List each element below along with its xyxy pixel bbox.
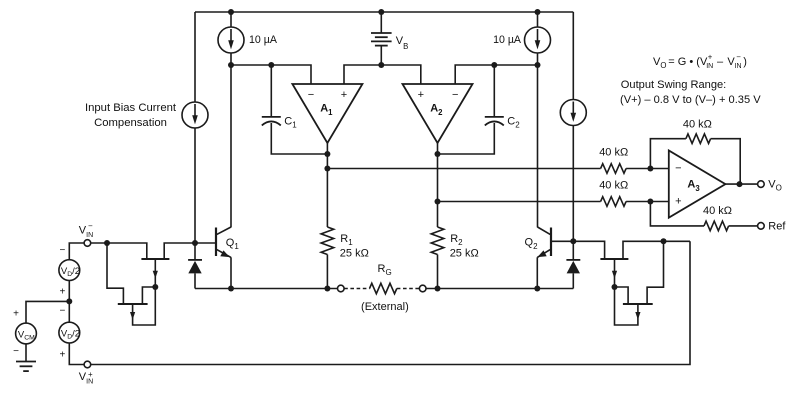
wire R2 to gain node <box>437 255 439 289</box>
arrow Q2 emitter <box>537 250 546 257</box>
wire feedback left riser <box>650 139 686 169</box>
node Q2 base junction <box>570 238 576 244</box>
node Q2 emitter junction <box>534 286 540 292</box>
label R7 value 40k <box>683 119 712 131</box>
wire J2 drain <box>142 287 155 304</box>
svg-text:−: − <box>88 221 93 230</box>
diode D1 lead <box>194 243 196 260</box>
wire Q1 collector feed <box>230 65 232 227</box>
wire top supply rail <box>195 11 573 13</box>
wire J1 source <box>154 259 156 287</box>
resistor R8 40k ref <box>704 221 729 231</box>
jfet J1 channel bar <box>141 258 169 260</box>
label R1 value <box>340 247 369 259</box>
svg-text:−: − <box>59 245 65 256</box>
arrow Q1 emitter <box>220 250 229 257</box>
svg-text:+: + <box>341 89 347 101</box>
label A3 minus input <box>675 162 681 174</box>
wire R1 to gain node <box>326 255 328 289</box>
svg-text:25 kΩ: 25 kΩ <box>340 247 369 259</box>
label A_2 <box>430 103 443 117</box>
svg-text:VB: VB <box>396 35 409 51</box>
svg-text:IN: IN <box>735 63 742 70</box>
label Input Bias Current Compensation <box>85 102 177 129</box>
node I3 output junction <box>535 62 541 68</box>
node V_IN- branch junction <box>104 240 110 246</box>
label R_G <box>378 263 392 277</box>
wire V_IN- to J2 gate <box>107 243 123 304</box>
transistor Q1 base bar <box>215 228 217 257</box>
svg-text:= G • (V: = G • (V <box>668 56 708 68</box>
arrow J2 source <box>130 312 135 320</box>
svg-text:Output Swing Range:: Output Swing Range: <box>621 79 726 91</box>
wire V_IN+ bottom rail <box>91 241 690 364</box>
terminal RG left <box>338 285 345 292</box>
wire J2 source loop <box>133 287 156 325</box>
jfet J3 channel bar <box>600 258 628 260</box>
svg-text:40 kΩ: 40 kΩ <box>599 179 628 191</box>
label output equation <box>653 52 747 70</box>
label V_O <box>768 179 782 193</box>
wire gain rail right <box>426 288 573 290</box>
wire compensation branch drop <box>194 12 196 102</box>
svg-text:25 kΩ: 25 kΩ <box>450 247 479 259</box>
node top-left junction <box>228 9 234 15</box>
capacitor C1 <box>262 117 281 126</box>
label R2 value <box>450 247 479 259</box>
wire Q2 collector <box>538 227 551 234</box>
wire rail65 mid segment A1+ to A2+ <box>344 65 421 84</box>
node R1 bottom junction <box>324 286 330 292</box>
label C_2 <box>507 115 520 129</box>
wire J4 drain <box>615 287 629 304</box>
svg-text:+: + <box>418 89 424 101</box>
resistor R5 40k <box>601 164 626 174</box>
svg-text:(External): (External) <box>361 301 409 313</box>
wire I4 to Q2 base node <box>572 126 574 242</box>
label output swing range line1 <box>621 79 726 91</box>
jfet J4 channel bar <box>623 303 653 305</box>
node top V_B junction <box>378 9 384 15</box>
svg-text:+: + <box>59 287 65 298</box>
wire C2 top lead <box>493 65 495 116</box>
op-amp A3 triangle <box>669 151 726 218</box>
source VD/2 upper <box>59 260 80 281</box>
svg-text:−: − <box>452 89 458 101</box>
svg-text:Input Bias Current: Input Bias Current <box>85 102 177 114</box>
source VD/2 lower <box>59 322 80 343</box>
diode D1 <box>188 260 202 289</box>
svg-text:10 µA: 10 µA <box>493 34 522 46</box>
label A1 minus input <box>308 89 314 101</box>
label minus lower VD/2 <box>59 305 65 316</box>
svg-text:A2: A2 <box>430 103 443 117</box>
node A2 output rail2 junction <box>435 199 441 205</box>
label output swing range line2 <box>620 94 761 106</box>
svg-text:(V+) – 0.8 V to (V–) + 0.35 V: (V+) – 0.8 V to (V–) + 0.35 V <box>620 94 761 106</box>
label plus V_CM <box>13 309 19 320</box>
node A2 output / C2 junction <box>435 151 441 157</box>
wire rail1 A1 output to R5 <box>327 168 600 170</box>
svg-text:40 kΩ: 40 kΩ <box>599 146 628 158</box>
svg-text:RG: RG <box>378 263 392 277</box>
terminal Ref <box>758 223 765 230</box>
label A2 plus input <box>418 89 424 101</box>
svg-text:Ref: Ref <box>768 220 786 232</box>
svg-text:O: O <box>660 61 666 70</box>
resistor RG external <box>370 283 397 293</box>
svg-text:–: – <box>717 56 724 68</box>
node A3 non-inverting input junction <box>647 199 653 205</box>
arrow J1 source <box>153 271 158 279</box>
svg-text:−: − <box>675 162 681 174</box>
svg-text:VO: VO <box>768 179 782 193</box>
svg-text:IN: IN <box>706 63 713 70</box>
resistor R7 40k feedback <box>686 134 711 144</box>
diode D2 lead <box>572 241 574 260</box>
label R5 value 40k <box>599 146 628 158</box>
label A1 plus input <box>341 89 347 101</box>
svg-text:+: + <box>675 196 681 208</box>
svg-text:Q1: Q1 <box>226 237 240 251</box>
resistor R6 40k <box>601 197 626 207</box>
label minus V_CM <box>13 346 19 357</box>
label R_2 <box>450 233 463 247</box>
label V_IN- <box>79 221 93 239</box>
svg-text:C2: C2 <box>507 115 520 129</box>
terminal V_O <box>758 181 765 188</box>
label plus upper VD/2 <box>59 287 65 298</box>
svg-text:10 µA: 10 µA <box>249 34 278 46</box>
node top-right junction <box>535 9 541 15</box>
wire RG dashed right <box>397 288 420 290</box>
resistor R1 25k <box>321 227 334 254</box>
svg-text:Compensation: Compensation <box>94 117 167 129</box>
wire Q2 emitter <box>537 250 550 258</box>
wire A3 output <box>725 183 757 185</box>
label R_1 <box>340 233 353 247</box>
label minus upper VD/2 <box>59 245 65 256</box>
label Q_1 <box>226 237 240 251</box>
svg-text:+: + <box>88 370 93 379</box>
wire J3 gate to V_IN+ rail <box>623 241 690 259</box>
transistor Q2 base bar <box>550 228 552 257</box>
label R8 value 40k <box>703 205 732 217</box>
wire top rail to I2 <box>230 12 232 27</box>
svg-text:A3: A3 <box>687 179 700 193</box>
label A3 plus input <box>675 196 681 208</box>
node R2 bottom junction <box>435 286 441 292</box>
wire right rail drop <box>572 12 574 100</box>
terminal V_IN- <box>84 240 91 247</box>
wire Q2 collector feed <box>537 65 539 227</box>
label A_1 <box>320 103 333 117</box>
wire Q1 emitter <box>217 250 231 258</box>
svg-text:+: + <box>13 309 19 320</box>
arrow J4 source <box>635 312 640 320</box>
wire C1 top lead <box>270 65 272 116</box>
node A1 output / C1 junction <box>324 151 330 157</box>
wire top rail to battery <box>380 12 382 33</box>
label A2 minus input <box>452 89 458 101</box>
node C1 top junction <box>268 62 274 68</box>
label 10 uA right <box>493 34 522 46</box>
node A3 inverting input junction <box>647 166 653 172</box>
wire feedback to output node <box>711 139 741 184</box>
label 10 uA left <box>249 34 278 46</box>
svg-text:C1: C1 <box>284 115 297 129</box>
wire A1 output to R1 <box>326 143 328 227</box>
op-amp A1 triangle <box>292 84 362 143</box>
label V_B <box>396 35 409 51</box>
wire Q1 emitter drop <box>230 257 232 288</box>
wire J3 source <box>614 259 616 287</box>
label R6 value 40k <box>599 179 628 191</box>
wire V_IN- to JFET J1 gate <box>91 243 147 259</box>
wire rail2 A2 output to R6 <box>438 201 601 203</box>
wire A3 plus node to R8 <box>650 202 704 226</box>
node V_CM junction <box>66 298 72 304</box>
wire rail65 right segment A2- to I3 <box>455 65 537 84</box>
terminal RG right <box>419 285 426 292</box>
op-amp A2 triangle <box>403 84 473 143</box>
wire I3 to y65 rail <box>537 53 539 65</box>
node Q1 base junction <box>192 240 198 246</box>
wire rail65 left segment to A1 inverting input <box>231 65 311 84</box>
node J1 source junction <box>152 284 158 290</box>
wire gain rail left <box>195 288 337 290</box>
wire compensation source to base node <box>194 128 196 243</box>
label plus lower VD/2 <box>59 350 65 361</box>
wire R5 to A3 inverting node <box>626 168 669 170</box>
capacitor C2 <box>485 117 504 126</box>
wire V_CM branch <box>26 301 69 323</box>
node A3 output junction <box>737 181 743 187</box>
wire C2 bottom lead to A2 output <box>438 123 495 154</box>
wire C1 bottom lead to A1 output <box>271 123 327 154</box>
svg-text:−: − <box>308 89 314 101</box>
node I2 output junction <box>228 62 234 68</box>
wire V_IN- to VD/2 upper <box>69 243 84 260</box>
wire V_CM to ground <box>25 344 27 362</box>
svg-text:−: − <box>13 346 19 357</box>
svg-text:+: + <box>708 52 713 61</box>
svg-text:R1: R1 <box>340 233 353 247</box>
wire Q2 emitter drop <box>536 257 538 288</box>
svg-text:R2: R2 <box>450 233 463 247</box>
resistor R2 25k <box>431 227 444 254</box>
wire R8 to Ref terminal <box>729 225 758 227</box>
node J3 source junction <box>612 284 618 290</box>
wire Q1 collector <box>217 227 231 234</box>
label A_3 <box>687 179 700 193</box>
wire V_IN+ to J4 gate <box>647 241 663 304</box>
current source I1 (input bias current compensation) <box>182 102 208 128</box>
label Ref <box>768 220 786 232</box>
svg-text:+: + <box>59 350 65 361</box>
wire Q2 base to J3 drain <box>573 241 604 259</box>
node Q1 emitter junction <box>228 286 234 292</box>
wire Q2 base <box>551 240 573 242</box>
label V_IN+ <box>79 370 93 385</box>
node C2 top junction <box>491 62 497 68</box>
battery V_B <box>371 33 392 65</box>
source V_CM <box>16 323 37 344</box>
wire top rail to I3 <box>537 12 539 27</box>
terminal V_IN+ <box>84 361 91 368</box>
svg-text:40 kΩ: 40 kΩ <box>683 119 712 131</box>
wire J1 drain to Q1 base <box>164 243 216 259</box>
jfet J2 channel bar <box>118 303 148 305</box>
current source I4 <box>560 100 586 126</box>
current source I3 10uA <box>525 27 551 53</box>
svg-text:): ) <box>743 56 747 68</box>
svg-text:A1: A1 <box>320 103 333 117</box>
arrow J3 source <box>612 271 617 279</box>
current source I2 10uA <box>218 27 244 53</box>
svg-text:Q2: Q2 <box>525 237 539 251</box>
svg-text:−: − <box>736 52 741 61</box>
wire VD/2 upper to mid node <box>68 281 70 323</box>
node A1 output rail1 junction <box>324 166 330 172</box>
wire VD/2 lower to V_IN+ <box>69 343 84 365</box>
wire J4 source loop <box>615 287 638 325</box>
label External <box>361 301 409 313</box>
wire I2 to y65 rail <box>230 53 232 65</box>
wire A2 output to R2 <box>437 143 439 227</box>
node V_IN+ branch junction <box>661 238 667 244</box>
diode D2 <box>566 260 580 289</box>
svg-text:−: − <box>59 305 65 316</box>
ground <box>16 362 36 372</box>
svg-text:40 kΩ: 40 kΩ <box>703 205 732 217</box>
wire RG dashed left <box>344 288 369 290</box>
node V_B bottom junction <box>378 62 384 68</box>
label C_1 <box>284 115 297 129</box>
label Q_2 <box>525 237 539 251</box>
wire R6 to A3 non-inverting node <box>626 201 669 203</box>
